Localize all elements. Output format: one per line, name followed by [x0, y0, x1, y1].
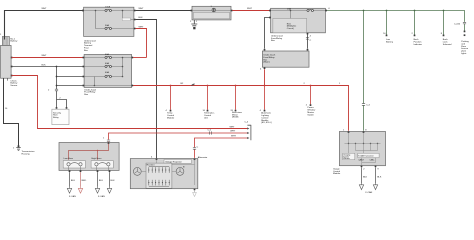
- stator winding right: [172, 168, 184, 176]
- wire U2 top-right red up (joins U1 pin3 wire): [133, 57, 147, 59]
- svg-text:BLK: BLK: [99, 180, 104, 182]
- svg-text:Alternator: Alternator: [198, 156, 208, 159]
- svg-text:BLK: BLK: [111, 180, 116, 182]
- wire U1 pin1 to battery sensor box: [136, 8, 192, 11]
- node green junction 2: [386, 10, 388, 12]
- pin drop5: [306, 104, 312, 106]
- ground arrow A1: [67, 187, 71, 194]
- drop2 label: [204, 112, 215, 120]
- wire drop 1 from bus: [170, 86, 172, 110]
- svg-text:BLK: BLK: [363, 177, 368, 179]
- wire into horn box: [108, 141, 110, 144]
- pin green drop2: [383, 33, 387, 36]
- ground G1 transmission housing bolt: [13, 145, 21, 150]
- pin U2 left3: [83, 76, 85, 78]
- pin U6 bottom 2: [80, 170, 82, 172]
- wire drop 3 from bus: [235, 86, 237, 110]
- svg-text:RED: RED: [82, 180, 87, 182]
- connector C2 on U4-U5 wire: [306, 38, 312, 43]
- pin U6 bottom 4: [109, 170, 111, 172]
- drop5 label: [307, 106, 315, 116]
- pin U4 bottom: [307, 33, 309, 35]
- connector C1 on junction column: [55, 89, 58, 91]
- battery body: [1, 45, 12, 78]
- splice S1 on bus: [181, 83, 195, 86]
- green drop3 label: [414, 39, 423, 46]
- svg-text:WHT: WHT: [230, 130, 236, 132]
- svg-text:Module: Module: [333, 173, 341, 175]
- svg-text:50A: 50A: [105, 24, 109, 27]
- svg-text:WHT: WHT: [230, 126, 236, 128]
- svg-text:F-CAN Transceiver: F-CAN Transceiver: [358, 154, 374, 157]
- pin U6 bottom 3: [97, 170, 99, 172]
- U6 internal wires to bottom pins: [69, 166, 109, 170]
- svg-text:(Main): (Main): [263, 62, 269, 64]
- pin U2 top-right: [131, 57, 133, 59]
- svg-text:CAN-H: CAN-H: [358, 158, 364, 161]
- pin bracket 3: [231, 135, 249, 139]
- svg-text:CAN-L: CAN-L: [370, 158, 375, 161]
- pin U2 left4: [83, 85, 85, 87]
- wire U4 bottom to U5: [308, 34, 312, 48]
- U3 internal wire: [192, 10, 231, 12]
- fuse F1 in U1: [105, 9, 112, 11]
- pin relay right: [66, 107, 68, 109]
- wire U4 pin2 down to U5: [265, 18, 271, 49]
- U7 ground stub: [193, 190, 197, 196]
- svg-text:Solenoid: Solenoid: [443, 44, 452, 46]
- U4 label: [271, 34, 283, 42]
- wire drop 5 from bus: [310, 86, 312, 105]
- wire red alternator output (wire3): [195, 138, 248, 158]
- wire battery positive cable to under-hood box (top): [5, 8, 84, 40]
- under-hood fuse/relay box U1 (top-left): [84, 7, 134, 36]
- voltage regulator sub-box: [164, 160, 192, 164]
- ground G1 label: [22, 150, 36, 155]
- pin U4 left2: [269, 17, 271, 19]
- battery bottom stub: [7, 78, 9, 80]
- pin drop3: [231, 110, 237, 112]
- svg-text:Battery: Battery: [10, 40, 18, 43]
- pin green drop4: [441, 33, 445, 36]
- connector bracket CB1: [245, 122, 251, 141]
- rectifier sub-box: [146, 163, 172, 188]
- horn H sub-box: [91, 157, 113, 168]
- wire branch to relay pin2: [57, 97, 67, 107]
- pin U8 bottom 2: [375, 165, 380, 170]
- wire red battery to connector bracket (wire1): [12, 76, 248, 129]
- U1 relay tab: [122, 18, 130, 21]
- fuse F2 in U1: [105, 27, 112, 29]
- U2 internal wiring: [84, 57, 132, 87]
- svg-text:(EDM): (EDM): [232, 117, 239, 119]
- pin U1 right 3: [134, 28, 136, 30]
- connector C3 on horn feed: [107, 140, 110, 142]
- pin U2 bottom-right: [131, 85, 133, 87]
- svg-text:lights: lights: [461, 52, 467, 55]
- U6 internal red feed: [69, 144, 109, 160]
- wire junction column down to security horn relay: [56, 91, 58, 107]
- gauge control module box U8: [339, 132, 385, 166]
- battery sensor label: [10, 80, 18, 87]
- wire green drop 3: [414, 11, 416, 35]
- pin U8 top red: [343, 130, 349, 133]
- connector C4 on alternator wire: [193, 146, 199, 149]
- pin U1 right 2: [134, 19, 136, 21]
- node bus junction 4: [264, 85, 266, 87]
- svg-text:Sensor: Sensor: [10, 84, 17, 87]
- charging indicator sub-box: [343, 153, 355, 160]
- svg-text:15A: 15A: [287, 7, 291, 10]
- svg-text:C-416: C-416: [454, 24, 461, 26]
- node green junction 1: [363, 10, 365, 12]
- wire U8 ground lead 1: [362, 167, 368, 183]
- wire red feed to horn relay box: [103, 133, 248, 140]
- green right label: [461, 40, 469, 55]
- fuse F6 in U4: [307, 9, 314, 11]
- node bus junction 3: [235, 85, 237, 87]
- horn relay box U6: [59, 143, 119, 171]
- pin U5 bottom: [260, 67, 265, 70]
- node bus junction 1: [170, 85, 172, 87]
- pin U5 top-right: [307, 49, 309, 51]
- under-hood fuse/relay box U4 (with ELD): [271, 8, 326, 33]
- pin U7 top black: [151, 157, 157, 160]
- node green junction 4: [443, 10, 445, 12]
- green drop2 label: [386, 39, 394, 43]
- pin battery right 2: [11, 66, 13, 68]
- svg-text:Unit: Unit: [204, 116, 208, 119]
- wire U5 bottom red down to bus: [264, 69, 266, 85]
- pin U1 left: [82, 10, 84, 12]
- wire junction to U2 pin4: [57, 85, 84, 87]
- svg-text:F-CAN: F-CAN: [69, 195, 76, 198]
- pin U4 left1: [269, 10, 271, 12]
- pin drop4: [260, 110, 266, 112]
- ELD unit label inside U4: [287, 23, 297, 30]
- ground arrow A3: [95, 187, 99, 194]
- wire drop 4 from bus: [264, 86, 266, 110]
- wire ground lead 2 (highlighted): [81, 172, 87, 187]
- wire green drop 2: [386, 11, 388, 35]
- svg-text:Module: Module: [167, 117, 175, 119]
- svg-text:Battery: Battery: [386, 41, 394, 44]
- battery current sensor box U3 (top middle): [192, 6, 231, 20]
- node bus junction 5: [310, 85, 312, 87]
- svg-text:Switch: Switch: [307, 113, 314, 116]
- svg-text:High Horn: High Horn: [92, 157, 103, 160]
- pin green drop3: [412, 33, 416, 36]
- svg-text:WHT: WHT: [139, 27, 145, 29]
- wire green drop to gauge module: [363, 11, 365, 104]
- wire green drop 4: [443, 11, 445, 35]
- U2 label: [84, 88, 96, 96]
- wire junction to U2 pin3: [57, 76, 84, 78]
- pin bracket 2: [230, 130, 249, 134]
- wire U8 ground lead 2: [376, 167, 382, 183]
- svg-text:F-CAN: F-CAN: [98, 195, 105, 198]
- wire battery pin1 red to U2: [12, 55, 84, 57]
- pin U5 top-left: [264, 49, 266, 51]
- wire ground lead 4: [110, 172, 116, 187]
- connector C5 on green drop: [362, 104, 371, 107]
- svg-text:Relay: Relay: [53, 117, 59, 119]
- svg-text:WHT: WHT: [42, 55, 48, 57]
- pin U3 right: [231, 10, 233, 12]
- U5 label inside: [263, 54, 276, 64]
- wire U1 pin2 down to alternator: [136, 17, 157, 158]
- svg-text:F-CAN: F-CAN: [366, 191, 373, 194]
- f-can transceiver sub-box: [358, 153, 379, 161]
- svg-text:WHT: WHT: [42, 8, 48, 10]
- pin U3 left: [191, 10, 193, 12]
- connector C6 on right green wire: [454, 22, 466, 25]
- under-hood fuse/relay box U2: [84, 55, 132, 88]
- pin drop2: [203, 110, 209, 112]
- alternator box U7: [130, 159, 198, 189]
- svg-text:Indicator: Indicator: [343, 157, 350, 160]
- svg-text:BLK: BLK: [377, 177, 382, 179]
- under-hood box U1 label: [84, 39, 96, 52]
- drop3 label: [232, 111, 242, 119]
- wire green continue to gauge box: [363, 105, 365, 131]
- rectifier diode grid: [149, 166, 169, 186]
- fuse F5 in U2: [105, 75, 112, 77]
- U7 internal wires: [148, 160, 195, 185]
- U4 internal wiring: [271, 7, 326, 18]
- svg-text:(EX, EX-L): (EX, EX-L): [261, 122, 272, 124]
- ground arrow A5: [359, 183, 363, 190]
- wire battery negative down to transmission ground: [4, 78, 19, 147]
- under-dash fuse/relay box U5: [262, 51, 309, 67]
- wire drop 2 from bus: [207, 86, 209, 110]
- fuse F3 in U2: [105, 56, 112, 58]
- pin U4 right: [325, 10, 327, 12]
- wire U3 to ELD box (red): [232, 10, 270, 12]
- svg-text:Indicator: Indicator: [414, 43, 423, 46]
- pin drop1: [166, 110, 172, 112]
- pin U1 right 1: [134, 10, 136, 12]
- wire battery pin2 to junction: [12, 64, 57, 66]
- wire ground lead 3: [98, 172, 104, 187]
- U3 ground stem: [190, 20, 198, 24]
- svg-text:BLK: BLK: [139, 17, 144, 19]
- pin U6 bottom 1: [69, 170, 71, 172]
- wire green right continue: [464, 24, 466, 31]
- wire green ELD signal: [327, 8, 465, 22]
- pin U7 bottom: [194, 189, 196, 191]
- sensor symbol in U3: [211, 6, 216, 12]
- svg-text:BLK: BLK: [42, 64, 47, 66]
- pin U7 top red: [194, 158, 196, 160]
- pin green right 2: [464, 34, 466, 36]
- ground arrow A4: [107, 187, 111, 194]
- node junction column x56.6: [56, 66, 58, 89]
- fuse F4 in U2: [105, 65, 112, 67]
- pin relay left: [56, 107, 58, 109]
- wire junction to U2 pin2: [57, 66, 84, 68]
- pin green right: [464, 31, 466, 33]
- stator winding left: [133, 168, 146, 176]
- wire ground lead 1: [70, 172, 76, 187]
- svg-text:WHT: WHT: [139, 8, 145, 10]
- svg-text:100A: 100A: [105, 6, 111, 9]
- drop4 label: [261, 112, 272, 125]
- pin bracket 1: [230, 126, 250, 129]
- U1 internal wiring: [84, 10, 134, 29]
- horn L sub-box: [63, 157, 85, 168]
- drop1 label: [167, 113, 175, 120]
- svg-text:60A: 60A: [105, 53, 109, 56]
- svg-text:40A: 40A: [105, 62, 109, 65]
- connector C7 on horn feed wire: [208, 130, 212, 135]
- relay K1 security horn relay box: [52, 109, 69, 124]
- pin U2 left2: [83, 66, 85, 68]
- svg-text:BLK: BLK: [71, 180, 76, 182]
- svg-text:WHT: WHT: [247, 8, 253, 10]
- pin U8 top green: [363, 130, 368, 133]
- node bus junction 2: [207, 85, 209, 87]
- svg-text:Low Horn: Low Horn: [64, 157, 74, 160]
- ground G2 chassis: [191, 24, 197, 29]
- pin U2 left1: [83, 57, 85, 59]
- svg-text:WHT: WHT: [231, 135, 237, 137]
- ground arrow A2 (highlighted): [78, 187, 82, 194]
- svg-text:40A: 40A: [105, 71, 109, 74]
- battery BAT terminal cap: [2, 37, 9, 46]
- svg-text:Housing: Housing: [22, 153, 31, 155]
- U8 label: [333, 168, 341, 175]
- pin battery right 3: [11, 75, 13, 77]
- pin battery right 1: [11, 57, 13, 59]
- U8 internal bus: [345, 133, 381, 165]
- node green junction 3: [414, 10, 416, 12]
- wire U1 pin3 red to U2: [136, 27, 147, 58]
- pin U8 bottom 1: [361, 165, 366, 170]
- svg-text:Circuit): Circuit): [287, 27, 294, 30]
- wire red bus from U2 to gauge module: [133, 86, 349, 131]
- green drop4 label: [443, 39, 452, 46]
- ground arrow A6: [373, 183, 377, 190]
- pin U6 top: [108, 142, 110, 144]
